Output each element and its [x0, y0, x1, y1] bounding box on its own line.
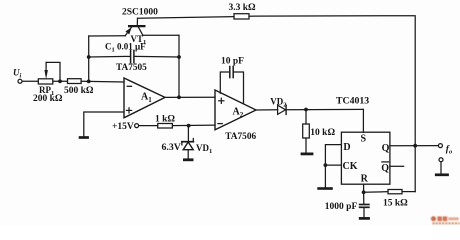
svg-text:TA7505: TA7505: [116, 63, 147, 73]
wire RP1 to R 500k: [53, 80, 68, 82]
svg-text:fo: fo: [446, 145, 453, 156]
svg-text:200 kΩ: 200 kΩ: [33, 94, 63, 104]
input terminal Ui: [18, 79, 22, 83]
svg-text:500 kΩ: 500 kΩ: [64, 86, 94, 96]
wire 10pF loop right: [234, 72, 244, 104]
wire right vertical rail: [414, 16, 416, 192]
svg-text:2SC1000: 2SC1000: [122, 8, 158, 18]
node B junction: [87, 80, 91, 84]
diode VD2: [278, 105, 287, 114]
ground VD1: [183, 158, 194, 161]
wire D pin: [325, 145, 341, 188]
wire 15k to right rail: [402, 191, 415, 193]
resistor 3.3 kOhm: [234, 14, 249, 19]
svg-text:1 kΩ: 1 kΩ: [155, 115, 175, 125]
resistor 15 kOhm: [388, 190, 402, 194]
svg-text:A1: A1: [141, 92, 152, 105]
ground A1 plus input: [79, 136, 89, 139]
ground 10k: [301, 152, 314, 155]
wire collector branch: [143, 34, 179, 36]
flip-flop TC4013 box: [341, 132, 390, 184]
svg-text:A2: A2: [233, 107, 244, 120]
svg-text:D: D: [343, 142, 350, 153]
node C1 branch right: [177, 55, 181, 59]
RP1 wiper arrow: [45, 62, 47, 71]
svg-text:VD1: VD1: [196, 143, 212, 155]
node D CK junction: [324, 163, 328, 167]
svg-text:10 kΩ: 10 kΩ: [310, 128, 335, 138]
svg-text:Ui: Ui: [13, 68, 22, 80]
capacitor 10 pF plates: [229, 67, 231, 78]
op-amp A1 TA7505: [124, 78, 165, 118]
resistor 500 kOhm: [68, 79, 82, 84]
ground D CK: [317, 187, 333, 190]
wire top rail left: [138, 17, 235, 19]
svg-text:R: R: [361, 173, 369, 184]
terminal +15V: [135, 124, 139, 128]
A2 plus sign: [219, 100, 224, 102]
wire feedback right vertical: [178, 35, 180, 97]
wire 10k to ground: [305, 138, 307, 153]
transistor VT1 2SC1000: [125, 18, 145, 35]
node R junction: [362, 190, 366, 194]
resistor 1 kOhm: [158, 124, 173, 129]
wire R node to 15k: [364, 191, 388, 194]
wire 500k to A1 inverting input: [81, 80, 124, 83]
RP1 wiper loop wire: [46, 62, 60, 81]
ground 1000 pF: [359, 217, 370, 220]
wire A1 output to A2 plus input: [165, 96, 215, 98]
capacitor C1 plates: [130, 50, 132, 62]
svg-text:10 pF: 10 pF: [221, 57, 244, 67]
wire R pin: [363, 184, 365, 192]
wire A1 plus input to ground: [84, 112, 124, 136]
svg-text:3.3 kΩ: 3.3 kΩ: [229, 3, 257, 13]
wire C1 branch right: [135, 55, 180, 58]
op-amp A2 TA7506: [215, 90, 256, 130]
wire 1k to A2 inverting input: [172, 124, 215, 127]
wire A2 output to VD2: [256, 109, 278, 111]
wire Ui to RP1: [22, 80, 38, 82]
wire feedback left vertical: [88, 36, 90, 81]
svg-text:VD2: VD2: [270, 97, 286, 109]
capacitor 1000 pF: [359, 192, 370, 217]
wire node to zener VD1: [187, 126, 189, 142]
wire terminal to ground: [440, 162, 442, 174]
svg-text:15 kΩ: 15 kΩ: [383, 199, 408, 209]
node Q output junction: [413, 144, 417, 148]
zener diode VD1: [182, 139, 194, 150]
A1 plus sign: [126, 109, 131, 111]
svg-text:TC4013: TC4013: [336, 96, 369, 107]
node A1 output: [177, 95, 181, 99]
wire 10pF loop left: [220, 72, 229, 93]
svg-text:S: S: [361, 133, 367, 144]
wire VD2 to S pin: [286, 108, 363, 110]
wire node to 10k: [305, 110, 307, 125]
wire S pin vertical: [362, 109, 364, 132]
ground output: [435, 173, 449, 176]
svg-text:+15V: +15V: [112, 122, 134, 132]
wire emitter branch left: [89, 35, 126, 37]
resistor 10 kOhm: [303, 124, 310, 138]
terminal output ground: [439, 158, 443, 162]
wire Qbar stub: [390, 165, 404, 167]
wire Q output: [390, 145, 438, 147]
A1 minus sign: [127, 85, 131, 87]
A2 minus sign: [218, 123, 222, 125]
terminal fo: [438, 144, 442, 148]
wire zener to ground: [187, 150, 189, 159]
svg-text:TA7506: TA7506: [225, 132, 256, 142]
potentiometer RP1: [38, 79, 53, 84]
wire C1 branch left: [89, 55, 130, 58]
wire top rail right: [249, 15, 414, 18]
wire CK pin: [325, 164, 341, 166]
node wiper junction: [58, 79, 62, 83]
wire +15V to 1k: [139, 125, 158, 127]
node C1 branch left: [87, 55, 91, 59]
svg-text:6.3V: 6.3V: [162, 142, 181, 153]
node VD2 output: [304, 108, 308, 112]
svg-text:Q: Q: [381, 163, 389, 174]
svg-text:1000 pF: 1000 pF: [325, 202, 358, 212]
svg-text:CK: CK: [343, 161, 358, 172]
svg-text:Q: Q: [382, 143, 390, 154]
node zener junction: [187, 124, 191, 128]
